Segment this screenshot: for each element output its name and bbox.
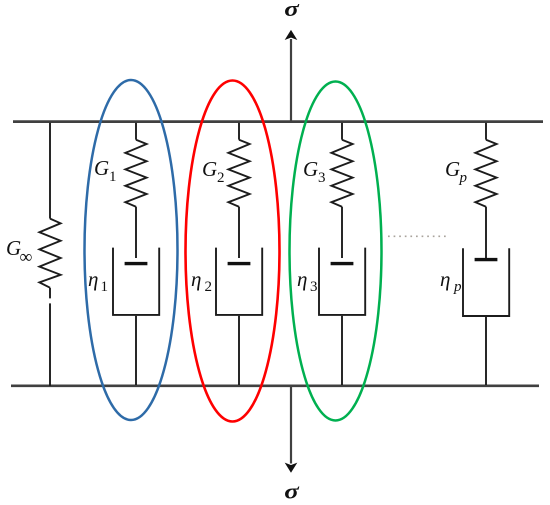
svg-text:η: η <box>88 267 98 291</box>
label eta1 <box>88 267 108 295</box>
dotted continuation line <box>388 235 449 237</box>
wire branch1 bottom lead <box>135 316 137 385</box>
svg-text:3: 3 <box>310 279 318 295</box>
wire G-infinity bottom lead <box>49 288 51 386</box>
label G_infinity <box>6 236 33 267</box>
label Gp <box>445 157 468 186</box>
green ellipse (branch 3 highlight) <box>290 82 382 421</box>
svg-text:2: 2 <box>217 170 225 186</box>
spring G2 <box>228 140 249 207</box>
wire branch2 top lead <box>238 123 240 140</box>
sigma label bottom <box>284 479 299 503</box>
svg-text:∞: ∞ <box>20 247 33 267</box>
blue ellipse (branch 1 highlight) <box>85 80 178 420</box>
top bar <box>13 120 543 123</box>
dashpot eta2 piston plate <box>228 262 251 265</box>
dashpot eta-p piston plate <box>475 258 498 261</box>
label eta2 <box>191 267 212 295</box>
svg-text:η: η <box>440 267 450 291</box>
label eta3 <box>297 267 318 295</box>
red ellipse (branch 2 highlight) <box>186 81 280 422</box>
svg-text:2: 2 <box>205 279 213 295</box>
wire branch-p bottom lead <box>485 317 487 385</box>
dashpot eta1 piston plate <box>125 262 148 265</box>
stress arrow down <box>286 387 296 472</box>
svg-text:σ: σ <box>284 0 299 21</box>
svg-text:1: 1 <box>101 279 109 295</box>
wire branch2 bottom lead <box>238 316 240 385</box>
svg-text:G: G <box>303 157 318 181</box>
bottom bar <box>11 384 539 387</box>
label G2 <box>202 157 225 186</box>
wire branch3 bottom lead <box>341 316 343 385</box>
svg-text:p: p <box>459 170 468 186</box>
dashpot eta1 cylinder <box>113 248 159 315</box>
svg-text:3: 3 <box>318 170 326 186</box>
svg-text:G: G <box>94 156 109 180</box>
wire G-infinity top lead <box>49 123 51 219</box>
svg-text:G: G <box>445 157 460 181</box>
sigma label top <box>284 0 299 21</box>
svg-text:η: η <box>191 267 201 291</box>
dashpot eta-p cylinder <box>463 248 509 316</box>
wire branch1 top lead <box>135 123 137 140</box>
label eta-p <box>440 267 462 295</box>
svg-text:G: G <box>202 157 217 181</box>
stress arrow up <box>286 31 296 121</box>
label G1 <box>94 156 117 185</box>
svg-text:p: p <box>453 279 462 295</box>
wire piston rod p <box>485 207 487 259</box>
svg-text:1: 1 <box>109 169 117 185</box>
dashpot eta3 piston plate <box>331 262 354 265</box>
spring G3 <box>331 140 352 207</box>
wire piston rod 1 <box>135 207 137 258</box>
wire piston rod 3 <box>341 207 343 258</box>
svg-text:σ: σ <box>284 479 299 503</box>
spring G1 <box>125 140 146 207</box>
spring G_inf <box>39 219 60 288</box>
spring Gp <box>475 140 496 207</box>
wire branch-p top lead <box>485 123 487 140</box>
svg-text:η: η <box>297 267 307 291</box>
label G3 <box>303 157 326 186</box>
dashpot eta3 cylinder <box>319 248 365 315</box>
wire piston rod 2 <box>238 207 240 258</box>
dashpot eta2 cylinder <box>216 248 262 315</box>
wire branch3 top lead <box>341 123 343 140</box>
